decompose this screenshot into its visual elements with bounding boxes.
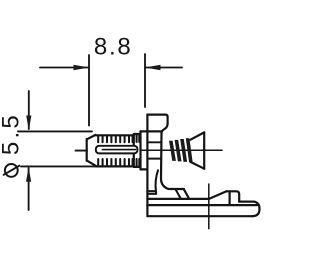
screw head face	[203, 132, 205, 168]
screw axis centerline	[142, 149, 222, 151]
bracket wall top edge	[147, 115, 167, 124]
arrowhead right-pointing at left extension line	[74, 65, 90, 70]
flange top edge (to wall inner line)	[141, 130, 162, 132]
centerline dash left of stud	[76, 150, 88, 152]
extension line top (Ø5.5)	[18, 130, 92, 132]
dimension leader right of 8.8	[146, 67, 182, 69]
flange left edge	[139, 131, 141, 169]
slot center line	[102, 149, 135, 151]
runout ticks top	[137, 134, 140, 142]
neck bottom edge	[134, 166, 141, 168]
pad inner left edge	[229, 192, 231, 205]
inner spring curve	[156, 170, 158, 191]
dimension line upper (Ø5.5)	[28, 91, 30, 129]
thread flank ticks top	[98, 136, 132, 143]
dimension text 8.8	[94, 34, 133, 61]
screw thread ridge 3	[180, 139, 187, 162]
foot vertical centerline	[208, 184, 210, 229]
tapped hole line lower	[147, 158, 161, 160]
base right top edge	[239, 201, 254, 203]
screw head cone lower	[191, 162, 205, 169]
bracket wall right S-curve to inner line	[162, 124, 168, 134]
foot upper ledge	[172, 188, 184, 190]
neck top edge	[134, 133, 141, 135]
slot (rounded)	[96, 146, 138, 154]
svg-text:5.5: 5.5	[0, 112, 24, 155]
extension line right (8.8)	[144, 54, 146, 107]
bracket wall left edge	[146, 115, 148, 216]
arrowhead down-pointing	[26, 116, 31, 131]
extension line left (8.8)	[88, 55, 90, 126]
pad top and right edge	[227, 191, 240, 201]
screw thread ridge 2	[175, 140, 182, 162]
dimension text Ø5.5 (rotated)	[0, 112, 24, 155]
bracket wall inner right edge	[161, 133, 172, 189]
step slant inner	[176, 190, 181, 199]
foot lower ledge	[147, 198, 209, 200]
svg-text:8.8: 8.8	[94, 34, 133, 61]
stud chamfer slants	[87, 135, 96, 166]
thread crest top line	[96, 134, 134, 136]
step slant outer	[184, 189, 189, 199]
arrowhead left-pointing at right extension line	[145, 65, 161, 70]
tapped hole line upper	[147, 141, 161, 143]
diameter symbol circle	[5, 164, 18, 177]
stud tip face	[86, 139, 88, 161]
base bottom edge	[147, 215, 252, 217]
runout ticks bottom	[137, 159, 140, 167]
base right rounded end	[253, 202, 260, 217]
pad up-slant	[209, 191, 227, 199]
extension line bottom (Ø5.5)	[21, 165, 95, 167]
thread crest bottom line	[96, 165, 134, 167]
shelf lower line	[147, 191, 156, 194]
dimension line lower (Ø5.5)	[28, 168, 30, 210]
screw thread ridge 1	[169, 141, 176, 161]
dimension leader left of 8.8	[40, 67, 88, 69]
screw thread ridge 4	[186, 138, 193, 162]
thread flank ticks bottom	[98, 159, 132, 166]
thread end vertical	[133, 134, 135, 166]
shelf upper line	[147, 190, 156, 192]
arrowhead up-pointing	[26, 167, 31, 182]
flange bottom edge	[141, 168, 148, 170]
base top edge	[147, 204, 257, 206]
screw head cone upper	[191, 132, 205, 139]
diameter symbol slash	[4, 166, 20, 175]
